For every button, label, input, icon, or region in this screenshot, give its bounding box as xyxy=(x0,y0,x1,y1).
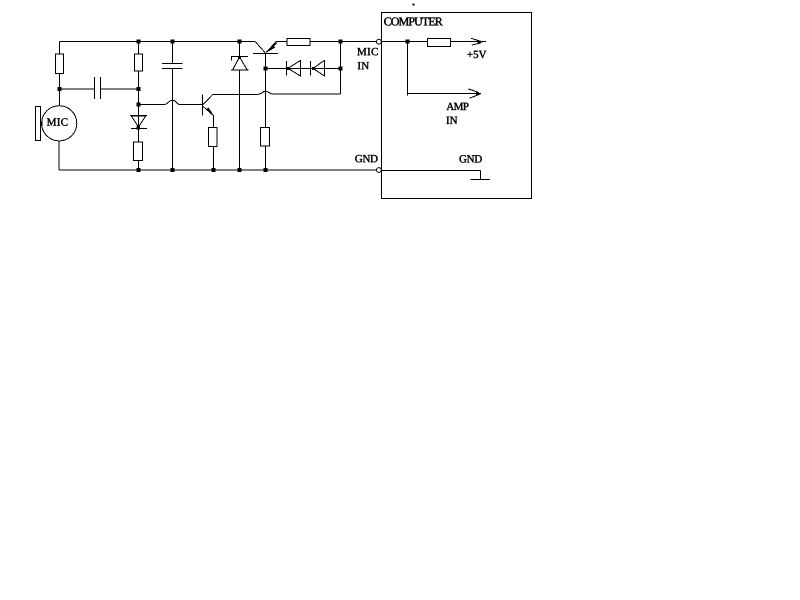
resistor R7 xyxy=(427,39,450,47)
wire R5 bottom to ground rail xyxy=(265,146,267,170)
junction dot ground rail / zener column xyxy=(238,168,242,172)
node B junction dot (C1 / R2 column) xyxy=(137,87,141,91)
zener diode D2 triangle xyxy=(233,57,247,70)
transistor Q2 base bar xyxy=(253,53,278,55)
node dot top rail at C2 column xyxy=(171,40,175,44)
transistor Q1 base bar xyxy=(202,94,204,115)
zener diode D2 anode bar xyxy=(231,69,249,71)
COMPUTER box xyxy=(382,13,532,199)
junction dot ground rail / C2 column xyxy=(171,168,175,172)
transistor Q2 collector lead xyxy=(256,42,266,53)
stray dot above box xyxy=(413,4,415,6)
wire top rail to R2 xyxy=(138,42,140,55)
diode D3 triangle xyxy=(288,60,301,76)
ground symbol bar xyxy=(470,178,490,180)
wire R6 to MIC IN terminal xyxy=(310,41,376,43)
wire GND inside box xyxy=(382,170,481,172)
resistor R3 xyxy=(134,142,143,161)
node D junction dot (Q2 base / D3 wire) xyxy=(264,67,268,71)
capacitor C1 left plate xyxy=(94,77,96,99)
wire top supply rail xyxy=(60,41,256,43)
terminal MIC IN open circle xyxy=(377,39,382,44)
microphone MIC contact notch xyxy=(41,121,43,125)
node A junction dot (mic / R1 / C1) xyxy=(58,87,62,91)
+5V arrowhead tip xyxy=(477,41,483,44)
wire Q2 base column down through R5 xyxy=(265,69,267,128)
capacitor C1 right plate xyxy=(100,77,102,99)
transistor Q2 emitter lead xyxy=(266,42,276,52)
zener diode D2 cathode bar xyxy=(231,56,248,58)
label AMP xyxy=(446,103,468,110)
wire Q2 base stem down to node D xyxy=(265,54,267,69)
zener diode D2 cathode tail xyxy=(231,57,233,61)
wire C2 bottom plate to ground rail xyxy=(172,69,174,171)
wire top rail to C2 top plate xyxy=(172,42,174,64)
label IN (amp) xyxy=(446,117,457,124)
transistor Q2 emitter arrowhead xyxy=(266,45,276,53)
label GND (terminal, outside box) xyxy=(355,155,377,162)
diode D3 anode bar xyxy=(300,60,302,76)
+5V arrowhead upper barb xyxy=(471,38,481,41)
transistor Q2 emitter arrowhead chevron xyxy=(270,43,277,50)
microphone MIC element plate xyxy=(36,106,41,140)
label GND (inside box) xyxy=(459,155,481,162)
resistor R4 xyxy=(209,128,217,147)
wire diode string from node D to node E xyxy=(266,68,341,70)
AMP IN arrowhead upper barb xyxy=(468,89,479,93)
transistor Q1 emitter lead xyxy=(203,106,214,115)
terminal GND open circle xyxy=(377,168,382,173)
capacitor C2 top plate xyxy=(162,63,182,65)
wire R2 bottom through node B to node C and D1 xyxy=(138,71,140,142)
+5V arrowhead lower barb xyxy=(472,43,481,45)
node F junction dot (amp tap) xyxy=(406,40,410,44)
wire R3 bottom to ground rail xyxy=(138,161,140,170)
wire bottom ground rail xyxy=(59,169,377,171)
wire node A to C1 left plate xyxy=(60,88,95,90)
wire node F down to AMP IN arrow xyxy=(407,42,409,96)
diode D1 apex dot xyxy=(137,126,140,129)
diode D4 anode bar xyxy=(324,60,326,76)
AMP IN arrowhead tip xyxy=(476,92,482,96)
wire C1 right plate to node B xyxy=(101,88,139,90)
node E junction dot (diode string) xyxy=(339,67,343,71)
diode D4 triangle xyxy=(313,60,325,76)
wire output column from top rail to collector wire xyxy=(340,42,342,95)
diode D3 apex dot xyxy=(287,67,290,70)
resistor R1 xyxy=(56,54,64,73)
node dot top rail at R2 column xyxy=(137,40,141,44)
wire R4 bottom to ground rail xyxy=(213,146,215,170)
wire ground symbol drop xyxy=(480,171,482,180)
diode D1 cathode bar xyxy=(131,127,147,129)
resistor R6 xyxy=(287,39,310,46)
node C junction dot (base wire / D1) xyxy=(137,102,141,106)
diode D3 cathode bar xyxy=(286,61,288,76)
microphone MIC body circle xyxy=(42,106,77,141)
label IN (terminal) xyxy=(358,62,369,69)
diode D1 anode bar xyxy=(130,115,147,117)
junction dot ground rail / R5 column xyxy=(264,168,268,172)
wire microphone bottom to ground rail xyxy=(58,141,60,170)
junction dot ground rail / R4 column xyxy=(212,168,216,172)
label MIC (terminal) xyxy=(357,48,377,55)
COMPUTER label xyxy=(384,17,443,25)
capacitor C2 bottom plate xyxy=(162,68,182,70)
diode D4 apex dot xyxy=(312,67,315,70)
transistor Q1 emitter arrowhead xyxy=(206,107,214,116)
microphone MIC label xyxy=(47,118,67,125)
wire Q1 base from node C with hop over C2 column xyxy=(139,100,203,104)
wire Q1 collector with hop over Q2 base column xyxy=(213,91,341,94)
resistor R5 xyxy=(261,128,270,146)
resistor R2 xyxy=(135,54,143,71)
wire top rail to zener D2 xyxy=(239,42,241,57)
wire Q2 emitter to R6 xyxy=(276,41,288,43)
wire R1 bottom to node A xyxy=(59,73,61,89)
wire MIC IN inside box to R7 xyxy=(382,41,428,43)
node dot top rail at zener column xyxy=(238,40,242,44)
wire R7 to +5V arrow xyxy=(451,41,486,43)
AMP IN arrowhead lower barb xyxy=(470,94,481,98)
wire Q1 emitter down to R4 xyxy=(213,116,215,128)
junction dot ground rail / R3 column xyxy=(137,168,141,172)
label +5V xyxy=(467,51,486,58)
node E junction dot (output column top) xyxy=(339,40,343,44)
transistor Q1 collector lead xyxy=(203,94,213,105)
wire AMP IN arrow shaft xyxy=(408,93,482,95)
wire R1 top stub xyxy=(59,42,61,55)
zener diode D2 apex dot xyxy=(238,56,241,59)
wire zener D2 anode to ground rail xyxy=(239,70,241,170)
wire node A down to microphone xyxy=(59,89,61,106)
diode D4 cathode bar xyxy=(310,61,312,76)
diode D1 triangle xyxy=(131,116,145,127)
